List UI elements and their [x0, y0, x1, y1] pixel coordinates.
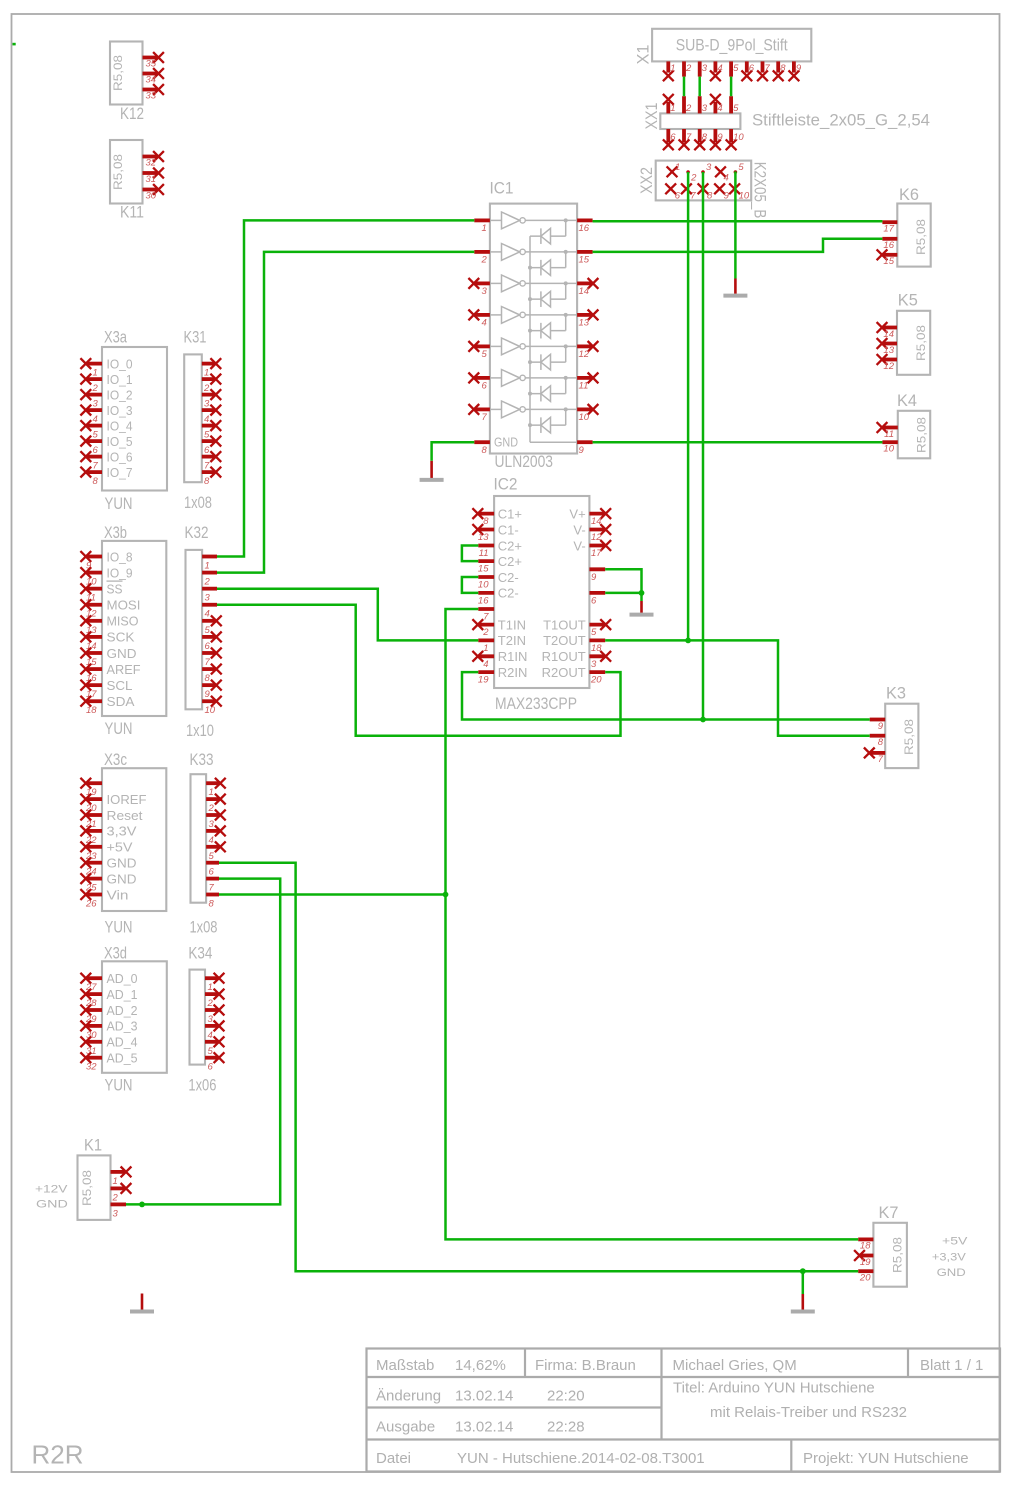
K6 pin 15: [877, 249, 898, 267]
X3d pin 28 AD_1: [80, 987, 137, 1009]
XX1 pin 8: [694, 129, 707, 150]
K33 pin 4: [206, 826, 226, 846]
svg-text:1x08: 1x08: [190, 918, 218, 937]
K12 pin 35: [143, 52, 164, 69]
svg-text:7: 7: [686, 132, 692, 143]
svg-text:19: 19: [860, 1257, 871, 1268]
svg-text:9: 9: [796, 63, 802, 74]
svg-text:AD_3: AD_3: [107, 1019, 138, 1034]
IC1 pin 14: [577, 278, 598, 297]
K11 pin 32: [143, 151, 164, 168]
driver channel 2 (buffer + flyback diode): [490, 244, 577, 276]
svg-text:2: 2: [204, 577, 211, 588]
XX2 pin 1: [667, 162, 681, 177]
svg-text:11: 11: [579, 381, 589, 392]
svg-text:YUN: YUN: [105, 918, 133, 937]
X1 pin 4: [710, 61, 723, 81]
svg-text:18: 18: [86, 705, 97, 716]
IC2 pin 18 T2OUT: [543, 633, 605, 654]
svg-text:2: 2: [203, 383, 210, 394]
svg-text:14,62%: 14,62%: [455, 1357, 506, 1374]
svg-text:C2-: C2-: [498, 570, 519, 585]
svg-text:20: 20: [859, 1273, 871, 1284]
svg-text:8: 8: [878, 737, 884, 748]
XX2 pin 9: [714, 183, 729, 201]
svg-text:Ausgabe: Ausgabe: [376, 1419, 435, 1436]
svg-text:K5: K5: [898, 291, 918, 310]
svg-text:R2OUT: R2OUT: [542, 665, 586, 680]
svg-text:2: 2: [112, 1192, 119, 1203]
svg-text:IO_0: IO_0: [107, 356, 133, 371]
svg-text:15: 15: [579, 255, 590, 266]
K31 pin 7: [202, 451, 221, 471]
X1 pin 3: [700, 61, 708, 76]
IC1 pin 13: [577, 310, 598, 329]
svg-text:GND: GND: [107, 646, 137, 661]
svg-text:R1IN: R1IN: [498, 649, 528, 664]
svg-text:6: 6: [670, 132, 676, 143]
IC2 pin 1 T2IN: [478, 633, 526, 654]
svg-text:K12: K12: [120, 104, 144, 123]
IC1 pin 6: [468, 373, 490, 392]
svg-text:2: 2: [690, 173, 697, 184]
IC U1: IC1 ULN2003 darlington driver: [468, 179, 598, 472]
X3d pin 30 AD_3: [80, 1019, 137, 1041]
svg-text:+5V: +5V: [107, 840, 133, 855]
svg-text:R5,08: R5,08: [111, 154, 125, 190]
wire XX2.2 down to T2OUT net: [687, 172, 690, 640]
svg-text:6: 6: [205, 641, 211, 652]
svg-text:3: 3: [482, 286, 488, 297]
svg-text:2: 2: [208, 803, 215, 814]
svg-text:T1OUT: T1OUT: [543, 617, 586, 632]
junction at K1.3: [139, 1202, 145, 1208]
K31 pin 5: [202, 420, 221, 440]
svg-text:XX1: XX1: [642, 103, 661, 130]
svg-text:3,3V: 3,3V: [107, 824, 137, 839]
XX2 pin 8: [698, 183, 713, 201]
K7 pin 18: [858, 1239, 873, 1251]
X3b pin 9 IO_8: [80, 549, 132, 571]
svg-text:IO_7: IO_7: [107, 465, 133, 480]
X1 pin 8: [773, 61, 786, 81]
svg-text:1: 1: [93, 368, 98, 379]
K7 pin 19: [854, 1250, 873, 1268]
connector X3a (YUN IO_0..IO_7): [80, 328, 167, 514]
svg-text:4: 4: [724, 173, 729, 184]
K33 pin 8: [206, 895, 219, 910]
svg-text:YUN: YUN: [105, 494, 133, 513]
svg-text:mit Relais-Treiber und RS232: mit Relais-Treiber und RS232: [710, 1404, 907, 1421]
K32 pin 9: [202, 680, 222, 700]
ground symbol below K7 wire: [791, 1271, 815, 1311]
svg-text:13: 13: [478, 532, 489, 543]
XX1 pin 1: [663, 94, 676, 114]
svg-text:3: 3: [93, 399, 99, 410]
svg-text:ULN2003: ULN2003: [495, 452, 554, 471]
svg-text:1: 1: [204, 368, 209, 379]
wire net VCC: K33.8 branch: [219, 893, 446, 896]
X3a pin 4 IO_3: [80, 403, 132, 425]
svg-text:10: 10: [205, 705, 216, 716]
svg-text:9: 9: [579, 445, 585, 456]
svg-text:6: 6: [208, 1062, 214, 1073]
X3b pin 10 IO_9: [80, 565, 132, 587]
X3a pin 7 IO_6: [80, 449, 132, 471]
X3b pin 12 MOSI: [80, 598, 140, 620]
K32 pin 8: [202, 664, 222, 684]
svg-text:K33: K33: [190, 750, 214, 769]
svg-text:IO_6: IO_6: [107, 449, 133, 464]
svg-text:Maßstab: Maßstab: [376, 1357, 434, 1374]
svg-text:13: 13: [579, 318, 590, 329]
K32 pin 3: [202, 589, 217, 604]
K33 pin 5: [206, 841, 226, 861]
svg-text:33: 33: [146, 91, 157, 102]
svg-text:V-: V-: [573, 538, 585, 553]
svg-text:4: 4: [717, 63, 722, 74]
svg-text:10: 10: [579, 412, 590, 423]
svg-text:1: 1: [113, 1176, 118, 1187]
K31 pin 1: [202, 358, 221, 378]
svg-text:4: 4: [205, 609, 210, 620]
wire X1.3 to XX1.3: [698, 77, 701, 97]
IC1 pin 8 GND: [474, 442, 490, 456]
svg-text:8: 8: [205, 673, 211, 684]
svg-text:SS: SS: [107, 581, 123, 596]
XX2 pin 7: [681, 183, 696, 201]
svg-text:AD_2: AD_2: [107, 1003, 138, 1018]
wire net GND2: K33.7 to K1.3: [126, 879, 280, 1205]
svg-text:R5,08: R5,08: [902, 719, 916, 755]
wire XX2.5 to ground: [734, 172, 737, 279]
svg-text:5: 5: [204, 430, 210, 441]
K31 pin 4: [202, 405, 221, 425]
IC2 pin 9: [589, 569, 605, 583]
IC2 pin 10 C2-: [478, 570, 519, 591]
svg-text:Titel: Arduino YUN Hutschiene: Titel: Arduino YUN Hutschiene: [673, 1380, 875, 1397]
svg-text:6: 6: [209, 867, 215, 878]
svg-text:C2+: C2+: [498, 538, 522, 553]
svg-text:6: 6: [591, 595, 597, 606]
svg-text:31: 31: [146, 174, 157, 185]
svg-text:Projekt: YUN Hutschiene: Projekt: YUN Hutschiene: [803, 1450, 969, 1467]
connector XX1 Stiftleiste_2x05_G_2,54: [642, 94, 930, 150]
XX1 pin 7: [679, 129, 692, 150]
connector K4 relay output: [877, 391, 931, 458]
svg-text:17: 17: [591, 548, 602, 559]
svg-text:GND: GND: [937, 1267, 966, 1279]
X3b pin 15 GND: [80, 646, 136, 668]
svg-text:34: 34: [146, 75, 157, 86]
wire net IO_8: K32.1 to IC1.1: [217, 220, 474, 556]
svg-text:R5,08: R5,08: [915, 417, 929, 453]
svg-text:19: 19: [478, 675, 489, 686]
svg-text:Datei: Datei: [376, 1450, 411, 1467]
ground symbol below XX2: [723, 279, 747, 296]
svg-text:C2-: C2-: [498, 586, 519, 601]
svg-text:MAX233CPP: MAX233CPP: [495, 694, 577, 713]
junction GND / ground symbol: [800, 1268, 806, 1274]
connector K12: [110, 42, 164, 124]
connector K5 relay output: [877, 291, 931, 375]
svg-text:SCL: SCL: [107, 678, 133, 693]
svg-text:22:20: 22:20: [547, 1388, 585, 1405]
wire net T2OUT: IC2.18 to K3.8: [605, 640, 870, 735]
IC2 pin 2 T1IN: [472, 617, 526, 638]
svg-text:12: 12: [579, 349, 590, 360]
svg-text:K7: K7: [879, 1203, 899, 1222]
svg-text:7: 7: [209, 883, 215, 894]
svg-text:GND: GND: [107, 856, 137, 871]
svg-text:12: 12: [883, 361, 894, 372]
svg-text:4: 4: [209, 835, 214, 846]
svg-text:8: 8: [93, 476, 99, 487]
IC1 pin 5: [468, 341, 490, 360]
ground symbol at IC1 pin 8: [420, 461, 444, 480]
svg-text:6: 6: [749, 63, 755, 74]
svg-text:6: 6: [675, 190, 681, 201]
X3d pin 27 AD_0: [80, 971, 137, 993]
svg-text:Firma: B.Braun: Firma: B.Braun: [535, 1357, 636, 1374]
wire X1.2 to XX1.2: [683, 77, 686, 97]
svg-text:R5,08: R5,08: [914, 219, 928, 255]
svg-text:IO_8: IO_8: [107, 549, 133, 564]
connector K6 relay output: [877, 185, 931, 267]
K31 pin 8: [202, 467, 221, 487]
svg-text:8: 8: [209, 899, 215, 910]
svg-text:13.02.14: 13.02.14: [455, 1388, 513, 1405]
svg-text:4: 4: [482, 318, 487, 329]
svg-text:1x08: 1x08: [184, 493, 212, 512]
K33 pin 3: [206, 810, 226, 830]
svg-text:1x06: 1x06: [188, 1076, 216, 1095]
X3b pin 16 AREF: [80, 662, 140, 684]
X3c pin 21 Reset: [80, 808, 143, 830]
wire net R2IN: IC2.19 loop to K3.9: [462, 672, 870, 719]
X3c pin 22 3,3V: [80, 824, 136, 846]
svg-text:3: 3: [591, 659, 597, 670]
svg-text:10: 10: [478, 580, 489, 591]
K12 pin 34: [143, 68, 164, 85]
X3c pin 25 GND: [80, 871, 136, 893]
svg-text:3: 3: [205, 593, 211, 604]
K11 pin 31: [143, 168, 164, 185]
svg-text:10: 10: [733, 132, 744, 143]
svg-text:1: 1: [482, 223, 487, 234]
svg-text:5: 5: [591, 627, 597, 638]
wire net VCC: IC2.7 to K7.18: [446, 609, 859, 1239]
svg-text:7: 7: [483, 612, 489, 623]
svg-text:9: 9: [878, 721, 884, 732]
XX2 pin 2: [686, 170, 697, 183]
X3a pin 6 IO_5: [80, 434, 132, 456]
K34 pin 6: [205, 1052, 224, 1072]
svg-text:6: 6: [204, 445, 210, 456]
common COM rail to pin 9: [530, 236, 577, 442]
svg-text:1: 1: [670, 63, 675, 74]
X3d pin 29 AD_2: [80, 1003, 137, 1025]
K33 pin 6: [206, 863, 219, 878]
IC2 pin 5 T1OUT: [543, 617, 611, 638]
svg-text:1x10: 1x10: [186, 721, 214, 740]
svg-text:K6: K6: [899, 185, 919, 204]
connector XX2 K2X05_B: [637, 161, 770, 219]
K6 pin 17: [882, 222, 897, 234]
XX2 pin 4: [715, 166, 729, 183]
wire net GND: K33.6 to K7.20: [219, 863, 858, 1271]
svg-text:16: 16: [883, 240, 894, 251]
svg-text:4: 4: [204, 414, 209, 425]
svg-text:1: 1: [675, 162, 680, 173]
svg-text:10: 10: [739, 190, 750, 201]
svg-text:5: 5: [209, 851, 215, 862]
XX1 pin 9: [710, 129, 723, 150]
svg-text:AD_1: AD_1: [107, 987, 138, 1002]
svg-text:7: 7: [93, 461, 99, 472]
svg-text:11: 11: [479, 548, 489, 559]
X3b pin 13 MISO: [80, 614, 138, 636]
K32 pin 1: [202, 557, 217, 572]
svg-text:IO_3: IO_3: [107, 403, 133, 418]
IC1 pin 7: [468, 404, 490, 423]
svg-text:YUN - Hutschiene.2014-02-08.T3: YUN - Hutschiene.2014-02-08.T3001: [457, 1450, 705, 1467]
ground symbol at IC2 V-: [630, 593, 654, 615]
svg-text:5: 5: [93, 430, 99, 441]
K34 pin 2: [205, 989, 224, 1009]
svg-text:11: 11: [884, 429, 894, 440]
XX2 pin 5: [734, 162, 745, 174]
svg-text:2: 2: [481, 255, 488, 266]
IC2 pin 7 VCC: [478, 609, 494, 623]
K5 pin 14: [877, 322, 897, 340]
K34 pin 5: [205, 1036, 224, 1056]
IC2 pin 20 R2OUT: [542, 665, 606, 686]
IC1 pin 2: [474, 252, 490, 266]
wire XX2.3 down to R2IN net: [702, 172, 705, 720]
svg-text:T2OUT: T2OUT: [543, 633, 586, 648]
svg-text:R1OUT: R1OUT: [542, 649, 586, 664]
svg-text:8: 8: [483, 516, 489, 527]
IC1 pin 15: [577, 252, 593, 266]
svg-text:Michael Gries, QM: Michael Gries, QM: [673, 1357, 797, 1374]
K3 pin 7: [864, 748, 885, 766]
wire IC1.9 to K4.10: [593, 441, 883, 444]
svg-text:14: 14: [591, 516, 602, 527]
IC1 pin 16: [577, 220, 593, 234]
connector K1 (+12V / GND input): [35, 1136, 131, 1220]
svg-text:T1IN: T1IN: [498, 617, 526, 632]
K3 pin 8: [870, 736, 886, 748]
svg-text:18: 18: [860, 1241, 871, 1252]
IC2 pin 11 C2+: [478, 538, 522, 559]
svg-text:26: 26: [85, 899, 97, 910]
svg-text:32: 32: [86, 1062, 97, 1073]
svg-text:4: 4: [208, 1030, 213, 1041]
X3d pin 32 AD_5: [80, 1051, 137, 1073]
svg-text:1: 1: [208, 982, 213, 993]
junction XX2.3 / R2IN: [700, 717, 706, 723]
ground symbol below K1: [130, 1294, 154, 1312]
IC2 pin 16 C2-: [478, 586, 519, 607]
X3a pin 1 IO_0: [80, 356, 132, 378]
svg-text:X1: X1: [634, 45, 653, 65]
X1 pin 9: [789, 61, 802, 81]
svg-text:SUB-D_9Pol_Stift: SUB-D_9Pol_Stift: [676, 36, 788, 55]
K1 pin 2: [111, 1183, 132, 1203]
K32 pin 10: [202, 696, 222, 716]
svg-text:AD_4: AD_4: [107, 1035, 138, 1050]
svg-text:5: 5: [205, 625, 211, 636]
K32 pin 4: [202, 605, 217, 620]
X3c pin 26 Vin: [80, 887, 128, 909]
XX2 pin 10: [729, 183, 750, 201]
svg-text:2: 2: [92, 383, 99, 394]
svg-text:2: 2: [685, 63, 692, 74]
connector X3d (YUN AD_0..AD_5): [80, 944, 166, 1095]
svg-text:20: 20: [590, 675, 602, 686]
X1 pin 5: [731, 61, 739, 76]
connector X3c (YUN power pins): [80, 750, 166, 937]
svg-text:1: 1: [205, 561, 210, 572]
IC2 pin 13 C1-: [472, 522, 518, 543]
svg-text:SCK: SCK: [107, 630, 135, 645]
svg-text:1: 1: [670, 103, 675, 114]
XX1 pin 10: [726, 129, 745, 150]
svg-text:5: 5: [738, 162, 744, 173]
svg-text:13: 13: [883, 345, 894, 356]
K1 pin 1: [111, 1167, 132, 1187]
wire IC1.16 to K6.17: [593, 220, 883, 223]
svg-text:K1: K1: [84, 1136, 102, 1155]
K33 pin 7: [206, 879, 219, 894]
wire IC2 C2- loop (pin 10 to 16): [462, 577, 478, 593]
driver channel 6 (buffer + flyback diode): [490, 370, 577, 402]
X1 pin 2: [684, 61, 692, 76]
driver channel 7 (buffer + flyback diode): [490, 401, 577, 433]
connector X3b (YUN IO_8..SDA): [80, 523, 166, 738]
svg-text:YUN: YUN: [105, 719, 133, 738]
IC2 pin 6: [589, 593, 605, 607]
svg-text:1: 1: [483, 643, 488, 654]
wire net T2IN: K32.3 to IC2 T1IN/T2IN: [217, 589, 478, 641]
svg-text:8: 8: [780, 63, 786, 74]
svg-text:35: 35: [146, 59, 157, 70]
svg-text:+3,3V: +3,3V: [932, 1252, 967, 1264]
svg-text:Vin: Vin: [107, 887, 129, 902]
svg-text:9: 9: [724, 190, 730, 201]
K3 pin 9: [870, 720, 886, 732]
K11 pin 30: [143, 184, 164, 201]
svg-text:K3: K3: [886, 684, 906, 703]
IC1 pin 9 COM: [577, 442, 593, 456]
svg-text:8: 8: [702, 132, 708, 143]
svg-text:V-: V-: [573, 522, 585, 537]
XX1 pin 6: [663, 129, 676, 150]
X3c pin 19 NC: [80, 778, 102, 798]
junction XX2.2 / T2OUT: [685, 638, 691, 644]
svg-text:3: 3: [702, 63, 708, 74]
svg-text:3: 3: [208, 1014, 214, 1025]
K7 pin 20: [858, 1271, 873, 1283]
svg-text:IO_2: IO_2: [107, 387, 133, 402]
svg-text:X3c: X3c: [104, 750, 127, 769]
svg-text:IO_4: IO_4: [107, 418, 133, 433]
junction VCC / K33.8: [443, 892, 449, 898]
svg-text:1: 1: [209, 787, 214, 798]
K32 pin 7: [202, 648, 222, 668]
svg-text:R5,08: R5,08: [111, 55, 125, 91]
